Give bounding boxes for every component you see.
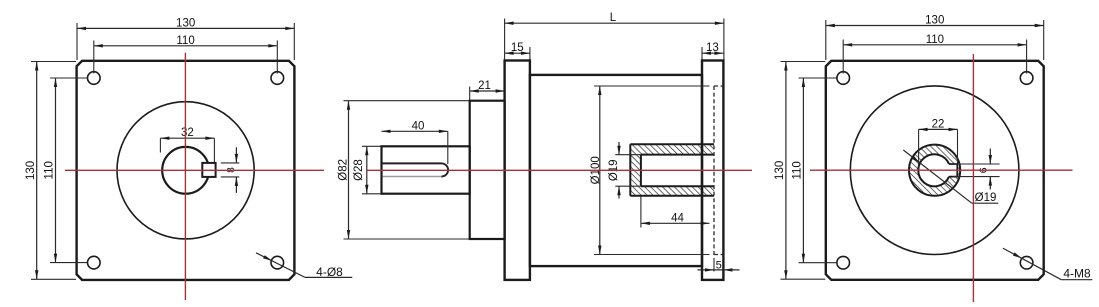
svg-text:Ø28: Ø28 [353,159,365,181]
svg-text:L: L [610,12,617,24]
svg-text:110: 110 [791,161,803,179]
svg-text:110: 110 [176,35,194,47]
svg-text:5: 5 [716,259,722,271]
svg-text:44: 44 [671,212,684,224]
svg-text:130: 130 [176,17,195,29]
svg-text:130: 130 [25,161,37,180]
svg-text:110: 110 [44,161,56,179]
svg-text:Ø82: Ø82 [337,159,349,181]
svg-text:130: 130 [925,15,944,27]
svg-text:32: 32 [181,127,194,139]
svg-text:Ø19: Ø19 [975,192,997,204]
svg-text:13: 13 [706,42,719,54]
svg-text:40: 40 [412,120,425,132]
svg-text:130: 130 [774,161,786,180]
svg-text:15: 15 [511,42,524,54]
svg-text:22: 22 [932,118,945,130]
svg-text:4-Ø8: 4-Ø8 [316,265,343,279]
svg-text:4-M8: 4-M8 [1063,266,1091,280]
svg-text:21: 21 [478,80,491,92]
svg-text:110: 110 [926,34,944,46]
